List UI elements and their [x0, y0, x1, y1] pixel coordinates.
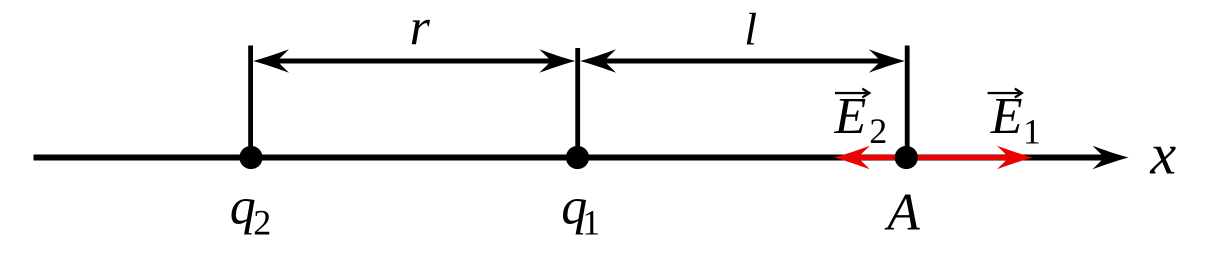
dimension line r (shaft) [269, 59, 559, 64]
dimension line l (shaft) [596, 59, 889, 64]
vector E1 red arrowhead [997, 146, 1033, 170]
node dot q1 [566, 146, 589, 169]
dimension r right arrowhead [539, 49, 575, 73]
vector E2 red arrow (shaft, pointing left from A) [850, 155, 907, 160]
label E1 with vector arrow [988, 88, 1041, 151]
vector E1 red arrow (shaft, pointing right from A) [907, 155, 1017, 160]
dimension l left arrowhead [580, 49, 616, 73]
svg-text:2: 2 [253, 202, 271, 242]
svg-text:1: 1 [1023, 111, 1041, 151]
node dot q2 [239, 146, 262, 169]
svg-text:E: E [834, 88, 867, 145]
tick line at q2 [248, 46, 253, 158]
svg-text:r: r [410, 0, 431, 57]
tick line at A [905, 46, 910, 158]
svg-text:l: l [744, 4, 757, 55]
tick line at q1 [575, 48, 580, 158]
svg-text:2: 2 [869, 111, 887, 151]
dimension r left arrowhead [253, 49, 289, 73]
wire: x-axis main line [34, 155, 1113, 161]
node dot A [895, 146, 918, 169]
label E2 with vector arrow [834, 88, 888, 151]
svg-text:q: q [230, 178, 256, 235]
svg-text:1: 1 [582, 202, 600, 242]
vector E2 red arrowhead [834, 146, 870, 170]
svg-text:A: A [884, 183, 920, 241]
dimension l right arrowhead [869, 49, 905, 73]
label q2 [230, 178, 271, 242]
svg-text:x: x [1149, 121, 1176, 186]
label q1 [561, 178, 600, 242]
x-axis arrowhead [1093, 146, 1129, 170]
